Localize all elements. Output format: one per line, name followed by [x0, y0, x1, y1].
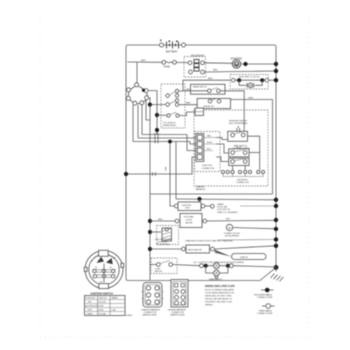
- svg-text:IGNITION SWITCH: IGNITION SWITCH: [91, 292, 114, 296]
- svg-text:RED: RED: [213, 70, 218, 72]
- wire: right main bus: [275, 50, 277, 267]
- svg-text:(MATING SIDE): (MATING SIDE): [171, 314, 186, 317]
- wire: left ground return bus: [126, 54, 128, 281]
- svg-text:CHASSIS: CHASSIS: [196, 186, 205, 189]
- svg-text:(IF EQUIPPED): (IF EQUIPPED): [157, 244, 171, 246]
- svg-text:RED: RED: [141, 60, 146, 62]
- svg-text:NON-REMOVABLE: NON-REMOVABLE: [254, 293, 273, 296]
- svg-text:RED: RED: [158, 219, 163, 221]
- svg-text:WIRING.: WIRING.: [205, 304, 214, 306]
- seat switch: [216, 144, 260, 166]
- chassis harness connector (mating side): [141, 283, 163, 317]
- fuse F1: [162, 60, 177, 68]
- wire: connector pin to x157 drop: [148, 91, 157, 135]
- brake switch pedal box 1: [191, 84, 226, 94]
- svg-text:(IF EQUIPPED): (IF EQUIPPED): [225, 235, 239, 237]
- light switch: [150, 258, 177, 274]
- legend: non-removable connections: [254, 288, 274, 299]
- svg-text:CIRCUIT: CIRCUIT: [99, 298, 108, 300]
- engine harness connector (mating side): [168, 280, 188, 317]
- ignition unit: [174, 202, 205, 211]
- svg-text:WIRING INSULATED CLIPS: WIRING INSULATED CLIPS: [205, 285, 235, 288]
- svg-text:CLIPS WERE REMOVED FOR: CLIPS WERE REMOVED FOR: [205, 292, 234, 294]
- wire: solenoid to starter: [204, 62, 232, 65]
- svg-text:(PEDAL UP): (PEDAL UP): [204, 105, 215, 108]
- svg-text:BLK: BLK: [164, 167, 166, 171]
- svg-text:CONNECTOR: CONNECTOR: [202, 168, 215, 170]
- svg-text:BATTERY: BATTERY: [166, 50, 178, 54]
- wire: starter to bus, node: [241, 62, 279, 66]
- svg-text:ACCESSORY: ACCESSORY: [86, 305, 99, 308]
- svg-text:CHASSIS HARNESS: CHASSIS HARNESS: [141, 309, 161, 312]
- wire: brake switch feed: [183, 89, 208, 91]
- chassis harness dashed enclosure: [194, 110, 268, 191]
- charging system output wire: [185, 237, 278, 242]
- svg-text:PROPERLY SECURE YOUR: PROPERLY SECURE YOUR: [205, 301, 232, 303]
- svg-text:RED: RED: [186, 89, 191, 91]
- wire: pedal box2 to right bus GRN: [231, 98, 273, 195]
- svg-text:RED: RED: [208, 78, 213, 80]
- svg-text:RED: RED: [186, 103, 191, 105]
- wire: left bus branch y174 to junction pin: [124, 157, 196, 176]
- svg-text:SWITCH: SWITCH: [155, 271, 163, 273]
- svg-text:SHOULD BE REPLACED TO: SHOULD BE REPLACED TO: [205, 297, 233, 300]
- node: x157 dots: [155, 113, 159, 132]
- svg-text:TWIN CYL. ENGINES): TWIN CYL. ENGINES): [217, 212, 238, 214]
- wires: connector pins down drops: [133, 100, 150, 142]
- svg-text:SEAT SWITCH: SEAT SWITCH: [234, 145, 248, 148]
- svg-text:OPTIONAL: OPTIONAL: [184, 216, 195, 219]
- legend: removable connections: [257, 304, 275, 315]
- power outlet: [224, 224, 278, 237]
- pointer arrow: [215, 250, 232, 257]
- svg-text:(ENERGIZED): (ENERGIZED): [163, 125, 176, 127]
- wires: drops to ignition unit: [164, 140, 176, 206]
- svg-text:METER: METER: [186, 223, 194, 225]
- battery B1: [160, 38, 186, 54]
- solenoid: [184, 55, 206, 78]
- svg-text:CONNECTOR: CONNECTOR: [236, 182, 249, 184]
- drawing number: [126, 315, 133, 317]
- svg-text:JUNCTION: JUNCTION: [202, 165, 213, 167]
- wire: clutch to bus node: [269, 78, 278, 82]
- wire: ignition unit top rail to bus: [176, 197, 278, 202]
- svg-text:W: W: [228, 226, 231, 230]
- svg-text:BLK: BLK: [226, 219, 231, 221]
- svg-text:BLUE: BLUE: [207, 142, 213, 144]
- svg-text:REGULATOR: REGULATOR: [188, 248, 202, 251]
- svg-text:START: START: [87, 313, 94, 316]
- headlights: [173, 263, 276, 281]
- ignition switch table: [85, 296, 126, 316]
- wire: connector to PTO feed node: [148, 98, 165, 107]
- svg-text:B+S+A1: B+S+A1: [99, 313, 107, 316]
- svg-text:S1: S1: [95, 267, 97, 269]
- svg-text:REMOVABLE: REMOVABLE: [259, 309, 272, 312]
- svg-text:(NOT IN REVERSE): (NOT IN REVERSE): [229, 123, 248, 125]
- svg-text:FUSE: FUSE: [164, 65, 171, 68]
- wire: battery positive top rail: [126, 45, 276, 54]
- svg-text:IGNITION: IGNITION: [182, 205, 191, 207]
- hour meter: [150, 214, 278, 228]
- spark plug cap: [205, 203, 278, 214]
- wire: bottom ground rail: [128, 280, 260, 282]
- reverse switch: [216, 121, 260, 171]
- ignition switch detail drawing: [84, 250, 123, 288]
- svg-text:SPARK: SPARK: [217, 203, 224, 206]
- PTO switch: [161, 84, 185, 128]
- a.c. output label: [194, 261, 244, 264]
- clutch-brake switch pedal box 2: [197, 98, 230, 109]
- svg-text:ENGINE HARNESS: ENGINE HARNESS: [168, 309, 187, 312]
- svg-text:SHORTING: SHORTING: [237, 179, 248, 181]
- regulator: [150, 244, 278, 253]
- ignition switch table title: [91, 292, 114, 296]
- svg-text:BRAKE SWITCH: BRAKE SWITCH: [193, 86, 207, 89]
- svg-text:POSITION: POSITION: [86, 298, 96, 300]
- harness wire trio with inline connectors: [133, 133, 196, 151]
- page margin dotted border: [40, 12, 309, 338]
- wire: solenoid lower to bus, node: [204, 69, 278, 73]
- wire: chassis bottom return: [150, 193, 273, 195]
- svg-text:"MAKE": "MAKE": [111, 297, 118, 300]
- svg-text:HARNESS: HARNESS: [196, 188, 206, 191]
- svg-text:S2: S2: [110, 267, 112, 269]
- svg-text:+: +: [160, 38, 163, 43]
- svg-text:M: M: [235, 63, 238, 67]
- svg-text:UNIT: UNIT: [185, 208, 190, 210]
- junction connector: [195, 132, 221, 172]
- wire: clutch feed from PTO: [179, 78, 231, 91]
- electric clutch: [230, 75, 269, 90]
- stator: [232, 254, 267, 260]
- svg-text:GRN: GRN: [248, 98, 253, 100]
- svg-text:HOUR: HOUR: [186, 220, 192, 222]
- svg-text:SERVICING OF UNIT, THEY: SERVICING OF UNIT, THEY: [205, 295, 232, 297]
- svg-text:62829: 62829: [126, 315, 133, 317]
- svg-text:RED: RED: [207, 136, 212, 138]
- ignition switch connector: [126, 83, 148, 105]
- svg-text:STATOR: STATOR: [240, 256, 248, 259]
- svg-text:(MATING SIDE): (MATING SIDE): [143, 314, 158, 317]
- svg-text:CONNECTIONS: CONNECTIONS: [257, 313, 273, 315]
- shorting connector: [221, 166, 264, 185]
- wire: fuse feed: [128, 60, 163, 62]
- junction connector upper block: [179, 108, 203, 116]
- svg-text:RUN: RUN: [88, 310, 93, 312]
- wire: ignition feed drop from fuse rail: [136, 62, 138, 84]
- wire: PTO row2 out right: [179, 103, 198, 105]
- fuel shutdown solenoid: [150, 226, 179, 247]
- svg-text:NOTE: IF WIRING INSULATED: NOTE: IF WIRING INSULATED: [205, 288, 235, 291]
- wiring insulated clips note: [205, 285, 235, 306]
- wire: PTO row3 from x157: [157, 114, 167, 117]
- svg-text:M: M: [114, 258, 116, 260]
- svg-text:B+G+M: B+G+M: [99, 302, 106, 304]
- svg-text:SOLENOID: SOLENOID: [191, 55, 204, 58]
- ground symbol: [260, 265, 284, 281]
- svg-text:PLUG CAP: PLUG CAP: [217, 206, 228, 209]
- starter motor: [231, 58, 243, 69]
- wire: fuse to solenoid: [176, 61, 188, 63]
- svg-text:ELECTRIC CLUTCH: ELECTRIC CLUTCH: [239, 76, 260, 78]
- wire: brake switch to reverse switch: [220, 91, 244, 132]
- svg-text:REVERSE SWITCH: REVERSE SWITCH: [229, 121, 248, 123]
- svg-text:HEADLIGHTS: HEADLIGHTS: [209, 278, 222, 281]
- engine left bus: [148, 105, 152, 281]
- svg-text:CONNECTIONS: CONNECTIONS: [257, 297, 273, 299]
